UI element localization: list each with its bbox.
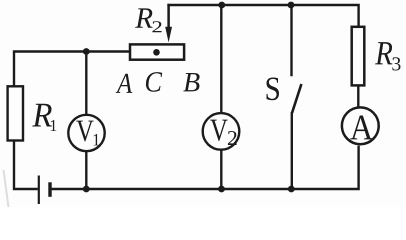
wire R3 to ammeter lead [357, 86, 359, 108]
rheostat wiper arrow [165, 4, 172, 43]
wire top horizontal with right corner [167, 5, 358, 27]
label R2 [135, 8, 153, 27]
label S [267, 78, 280, 101]
battery long plate [38, 176, 40, 205]
wire switch lower lead [291, 112, 293, 189]
node junction bottom wire V2 [218, 186, 225, 193]
node junction left wire [83, 48, 90, 55]
wire left lower vertical to battery [14, 140, 38, 189]
wire top-left horizontal with left corner [14, 52, 130, 88]
wire V1 upper lead [85, 52, 87, 116]
voltmeter V1 [68, 115, 104, 151]
wire V1 lower lead [85, 151, 87, 189]
node junction top wire switch branch [288, 2, 295, 9]
voltmeter V2 [203, 113, 240, 150]
scan smudge bottom-left [4, 170, 9, 207]
rheostat wiper position dot C [153, 49, 160, 56]
node junction bottom wire switch [288, 186, 295, 193]
label R3 [375, 42, 392, 64]
label C [146, 72, 162, 92]
rheostat R2 body [130, 44, 184, 59]
ammeter A [342, 107, 379, 144]
node junction top wire V2 branch [218, 2, 225, 9]
battery short plate [48, 182, 51, 197]
label R1 [32, 104, 52, 127]
wire V2 lower lead [220, 150, 222, 189]
switch S blade [292, 84, 301, 113]
resistor R3 [352, 27, 365, 86]
wire bottom horizontal [51, 146, 358, 189]
wire switch upper lead [290, 5, 292, 76]
node junction bottom wire V1 [83, 186, 90, 193]
wire V2 upper lead [220, 5, 222, 114]
label A [116, 74, 133, 93]
resistor R1 [8, 86, 23, 140]
label B [183, 73, 199, 91]
